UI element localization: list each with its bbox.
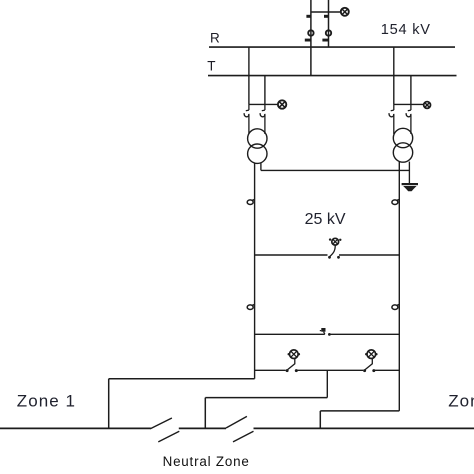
wire incoming feeder conductor b (top, to bus R) xyxy=(328,0,330,47)
wire T2 ground terminal xyxy=(408,162,410,184)
motorized sectionalizer switch on 25 kV bus xyxy=(328,238,341,258)
instrument circle on conductor b xyxy=(326,30,331,35)
wire 25 kV return conductor xyxy=(261,169,410,171)
svg-text:25 kV: 25 kV xyxy=(305,211,346,228)
breaker hook on right tap a xyxy=(389,104,394,134)
catenary section Zone 1 xyxy=(0,427,151,429)
motorized feeder switch M2 xyxy=(363,350,377,372)
wire feeder 1 riser xyxy=(108,379,110,429)
wire feeder 1 horizontal xyxy=(109,378,255,380)
transformer T2 secondary winding xyxy=(393,143,412,162)
catenary neutral section xyxy=(179,427,226,429)
wire feeder 3 horizontal xyxy=(320,410,399,412)
wire left transformer primary tie xyxy=(249,103,278,105)
svg-text:154 kV: 154 kV xyxy=(381,22,431,38)
breaker hook on right feeder upper xyxy=(392,199,399,204)
wire drop from switch bus to feeder 2 xyxy=(326,370,328,397)
bus T (154 kV busbar T) xyxy=(208,75,457,77)
section break 1 upper blade xyxy=(150,418,172,429)
wire right transformer T-phase tap xyxy=(410,76,412,105)
disconnector on mid tie xyxy=(320,328,331,336)
svg-text:T: T xyxy=(207,59,215,74)
wire T1 return terminal xyxy=(260,163,262,171)
ground xyxy=(402,183,418,191)
breaker hook on right tap b xyxy=(406,104,411,134)
instrument circle on conductor a xyxy=(308,30,313,35)
wire left 25 kV feeder (T1 secondary down) xyxy=(254,163,256,379)
wire right transformer primary tie xyxy=(394,103,424,105)
motorized feeder switch M1 xyxy=(286,350,300,372)
indicator circle on right primary tie xyxy=(424,102,431,109)
breaker hook on right feeder lower xyxy=(392,304,399,309)
wire right 25 kV feeder (T2 secondary down) xyxy=(398,162,400,411)
wire right transformer R-phase tap xyxy=(393,47,395,104)
svg-text:Zone 1: Zone 1 xyxy=(17,392,76,411)
wire top tie between feeder conductors xyxy=(311,11,341,13)
catenary section Zone 2 xyxy=(254,427,474,429)
contact bar on conductor b xyxy=(322,39,328,42)
transformer T1 secondary winding xyxy=(248,144,267,163)
svg-text:Zone 2: Zone 2 xyxy=(448,391,474,410)
breaker hook on left tap b xyxy=(260,104,265,134)
bus 25 kV (sectionalizing bus) left segment xyxy=(255,254,328,256)
indicator circle on left primary tie xyxy=(278,100,286,108)
indicator circle (motor drive) on top tie xyxy=(341,8,349,16)
wire feeder 3 riser xyxy=(319,411,321,429)
bus feeder switchgear segment 3 xyxy=(375,369,400,371)
bus feeder switchgear segment 2 xyxy=(297,369,363,371)
breaker hook on left feeder upper xyxy=(247,199,254,204)
breaker hook on left tap a xyxy=(244,104,249,134)
bus R (154 kV busbar R) xyxy=(209,46,455,48)
switch contact block on conductor b xyxy=(324,15,329,18)
wire left transformer T-phase tap xyxy=(264,76,266,105)
transformer T2 primary winding xyxy=(393,128,412,147)
svg-text:Neutral Zone: Neutral Zone xyxy=(163,454,250,469)
wire feeder 2 horizontal xyxy=(205,397,327,399)
switch contact block on conductor a xyxy=(306,15,311,18)
wire feeder 2 riser xyxy=(204,398,206,429)
svg-text:R: R xyxy=(210,30,220,45)
wire mid tie left segment xyxy=(255,333,325,335)
section break 2 upper blade xyxy=(226,416,247,428)
bus feeder switchgear (y370) segment 1 xyxy=(255,369,286,371)
section break 2 lower blade xyxy=(233,431,254,442)
wire incoming feeder conductor a (top, to bus T) xyxy=(310,0,312,76)
contact bar on conductor a xyxy=(305,39,311,42)
bus 25 kV right segment xyxy=(339,254,399,256)
wire left transformer R-phase tap xyxy=(248,47,250,104)
breaker hook on left feeder lower xyxy=(247,304,254,309)
transformer T1 primary winding xyxy=(248,129,267,148)
section break 1 lower blade xyxy=(158,431,179,442)
wire mid tie right segment xyxy=(329,333,400,335)
